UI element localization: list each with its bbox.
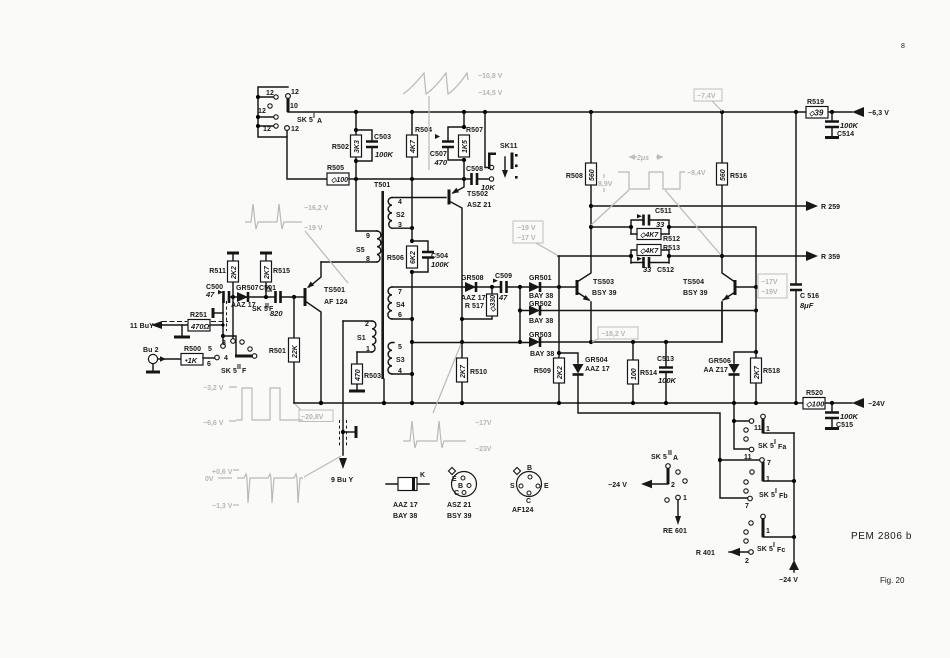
wire GR504 to SK5IFb xyxy=(578,403,760,498)
svg-text:S: S xyxy=(510,483,515,490)
svg-text:7: 7 xyxy=(767,460,771,467)
svg-text:R509: R509 xyxy=(534,368,551,375)
svg-text:33: 33 xyxy=(656,220,665,229)
svg-text:SK 5: SK 5 xyxy=(757,546,773,553)
legend diode package AAZ17 BAY38 xyxy=(386,472,429,520)
svg-text:47: 47 xyxy=(498,293,508,302)
svg-text:C512: C512 xyxy=(657,267,674,274)
resistor R517 xyxy=(462,287,498,319)
svg-text:12: 12 xyxy=(263,126,271,133)
svg-text:1: 1 xyxy=(366,346,370,353)
resistor R509 xyxy=(534,353,565,405)
svg-text:2: 2 xyxy=(365,321,369,328)
svg-text:7: 7 xyxy=(398,289,402,296)
svg-text:ASZ 21: ASZ 21 xyxy=(447,502,471,509)
svg-text:◇330: ◇330 xyxy=(490,295,497,312)
svg-text:R519: R519 xyxy=(807,99,824,106)
wire GR501 row to TS503 xyxy=(465,285,576,289)
winding S5 xyxy=(321,231,381,263)
svg-text:11: 11 xyxy=(744,454,752,461)
winding S4 xyxy=(388,287,465,319)
svg-text:12: 12 xyxy=(291,126,299,133)
svg-text:−17V: −17V xyxy=(475,420,492,427)
legend transistor AF124 xyxy=(510,465,549,514)
arrow 9BuY xyxy=(331,458,353,484)
resistor R508 xyxy=(566,110,597,229)
diode GR502 xyxy=(518,287,756,325)
svg-text:2μs: 2μs xyxy=(636,155,649,162)
svg-text:100K: 100K xyxy=(375,150,394,159)
switch SK11 xyxy=(483,110,518,179)
resistor R251 xyxy=(188,312,225,331)
svg-text:R503: R503 xyxy=(364,373,381,380)
svg-text:R520: R520 xyxy=(806,390,823,397)
svg-text:1: 1 xyxy=(766,528,770,535)
socket Bu2 xyxy=(143,347,181,364)
diode GR504 xyxy=(559,353,610,403)
svg-text:◇39: ◇39 xyxy=(809,109,824,118)
wire R259 row xyxy=(591,205,806,207)
svg-text:−17 V: −17 V xyxy=(517,235,536,242)
svg-text:R502: R502 xyxy=(332,144,349,151)
text page 8 xyxy=(901,43,905,50)
svg-text:R500: R500 xyxy=(184,346,201,353)
svg-text:−19 V: −19 V xyxy=(517,225,536,232)
svg-text:SK 5: SK 5 xyxy=(758,443,774,450)
shield tap C500 line xyxy=(213,308,223,318)
svg-text:BSY 39: BSY 39 xyxy=(592,290,617,297)
svg-text:C: C xyxy=(526,498,531,505)
svg-text:−24 V: −24 V xyxy=(779,577,798,584)
svg-text:GR504: GR504 xyxy=(585,357,608,364)
svg-text:GR507: GR507 xyxy=(236,285,259,292)
capacitor C515 xyxy=(825,403,859,429)
svg-text:E: E xyxy=(544,483,549,490)
wire node base-R509 link xyxy=(557,256,561,355)
resistor R511 xyxy=(209,253,239,297)
wire top supply bus xyxy=(288,111,852,113)
svg-text:1: 1 xyxy=(766,426,770,433)
svg-text:R512: R512 xyxy=(663,236,680,243)
capacitor C507 xyxy=(430,110,466,167)
svg-text:−24 V: −24 V xyxy=(608,482,627,489)
resistor R510 xyxy=(457,317,488,405)
wire SK5IA contact12 to R505 row xyxy=(287,131,327,179)
ground C515 xyxy=(825,427,839,430)
svg-text:GR503: GR503 xyxy=(529,332,552,339)
resistor R501 xyxy=(269,295,300,403)
svg-text:AAZ 17: AAZ 17 xyxy=(461,295,486,302)
svg-text:2K2: 2K2 xyxy=(557,366,564,380)
svg-text:3: 3 xyxy=(222,340,226,347)
winding S3 xyxy=(388,343,412,376)
svg-text:100K: 100K xyxy=(840,412,859,421)
svg-text:+0,6 V: +0,6 V xyxy=(212,469,233,476)
svg-text:100: 100 xyxy=(631,368,638,380)
diode GR507 xyxy=(231,285,274,313)
voltage box -7,4V xyxy=(694,89,722,111)
ground C514 xyxy=(825,136,839,139)
waveform spikes -17V xyxy=(403,344,492,453)
svg-text:3K3: 3K3 xyxy=(354,140,361,153)
svg-text:S2: S2 xyxy=(396,212,405,219)
transistor TS504 xyxy=(683,256,758,342)
svg-text:C: C xyxy=(454,490,459,497)
svg-text:22K: 22K xyxy=(292,344,299,359)
svg-text:C511: C511 xyxy=(655,208,672,215)
svg-text:GR508: GR508 xyxy=(461,275,484,282)
svg-text:Fa: Fa xyxy=(778,444,786,451)
svg-text:6: 6 xyxy=(398,312,402,319)
switch SK5-II-F xyxy=(207,297,257,375)
svg-text:I: I xyxy=(773,542,775,549)
transistor TS502 xyxy=(449,179,491,319)
svg-text:−10,8 V: −10,8 V xyxy=(478,73,503,80)
transistor TS501 xyxy=(294,262,348,405)
svg-text:A: A xyxy=(673,455,678,462)
svg-text:S5: S5 xyxy=(356,247,365,254)
svg-text:−6,3 V: −6,3 V xyxy=(868,110,889,117)
svg-text:2K7: 2K7 xyxy=(460,364,467,379)
svg-text:12: 12 xyxy=(291,89,299,96)
svg-text:R516: R516 xyxy=(730,173,747,180)
svg-text:1: 1 xyxy=(683,495,687,502)
svg-text:TS503: TS503 xyxy=(593,279,614,286)
resistor R519 xyxy=(806,99,834,118)
resistor R516 xyxy=(717,110,748,258)
resistor R502 xyxy=(332,110,362,179)
svg-text:R 401: R 401 xyxy=(696,550,715,557)
svg-text:−24V: −24V xyxy=(868,401,885,408)
svg-text:R501: R501 xyxy=(269,348,286,355)
svg-text:0V: 0V xyxy=(205,476,214,483)
arrow -6,3V xyxy=(852,107,889,117)
svg-text:4: 4 xyxy=(224,355,228,362)
svg-text:TS501: TS501 xyxy=(324,287,345,294)
svg-text:R251: R251 xyxy=(190,312,207,319)
voltage box -17V -19V xyxy=(758,274,787,298)
svg-text:C513: C513 xyxy=(657,356,674,363)
svg-text:−23V: −23V xyxy=(475,446,492,453)
svg-text:470Ω: 470Ω xyxy=(190,322,210,331)
svg-text:SK 5: SK 5 xyxy=(221,368,237,375)
svg-text:C503: C503 xyxy=(374,134,391,141)
voltage box -18,2V xyxy=(592,327,638,342)
wire bottom -24V bus xyxy=(294,402,852,404)
svg-text:−8,4V: −8,4V xyxy=(687,170,706,177)
legend transistor ASZ21 BSY39 xyxy=(447,467,477,520)
diode GR503 xyxy=(518,311,554,359)
svg-text:R508: R508 xyxy=(566,173,583,180)
wire R359 row xyxy=(558,255,806,257)
svg-text:B: B xyxy=(458,483,463,490)
svg-text:−19V: −19V xyxy=(761,289,778,296)
wire emitter row 342 xyxy=(412,302,722,344)
svg-text:R 517: R 517 xyxy=(465,303,484,310)
svg-text:Fb: Fb xyxy=(779,493,788,500)
wire node x756 xyxy=(754,287,758,354)
svg-text:10: 10 xyxy=(290,103,298,110)
svg-text:I: I xyxy=(774,439,776,446)
wire 9BuY output xyxy=(340,321,357,455)
arrow 11BuY xyxy=(130,321,228,330)
switch SK5-I-Fb xyxy=(744,458,796,510)
svg-text:BAY 38: BAY 38 xyxy=(529,293,553,300)
svg-text:1K5: 1K5 xyxy=(462,140,469,153)
voltage box -20,8V xyxy=(295,404,333,422)
svg-text:Bu 2: Bu 2 xyxy=(143,347,159,354)
text PEM 2806 b xyxy=(851,531,912,542)
svg-text:AAZ 17: AAZ 17 xyxy=(393,502,418,509)
svg-text:R510: R510 xyxy=(470,369,487,376)
svg-text:8: 8 xyxy=(901,43,905,50)
svg-text:I: I xyxy=(775,488,777,495)
svg-text:2K7: 2K7 xyxy=(264,265,271,280)
svg-text:−6,6 V: −6,6 V xyxy=(203,420,224,427)
svg-text:SK 5: SK 5 xyxy=(297,117,313,124)
svg-text:R507: R507 xyxy=(466,127,483,134)
waveform sawtooth -10,8V xyxy=(403,73,503,170)
switch SK5-I-A xyxy=(256,87,322,137)
svg-text:◇100: ◇100 xyxy=(806,400,825,409)
svg-text:•1K: •1K xyxy=(185,356,198,365)
transformer T501 core xyxy=(374,182,390,405)
svg-text:11: 11 xyxy=(754,425,762,432)
arrow -24V right xyxy=(852,398,885,408)
resistor R518 xyxy=(751,352,781,405)
svg-text:F: F xyxy=(242,368,247,375)
svg-text:R505: R505 xyxy=(327,165,344,172)
svg-text:5: 5 xyxy=(398,344,402,351)
svg-text:B: B xyxy=(527,465,532,472)
svg-text:BAY 38: BAY 38 xyxy=(530,351,554,358)
svg-text:AF 124: AF 124 xyxy=(324,299,348,306)
svg-text:R 259: R 259 xyxy=(821,204,840,211)
resistor R507 xyxy=(459,127,484,179)
junction dots bottom bus xyxy=(319,401,464,405)
svg-text:C 516: C 516 xyxy=(800,293,819,300)
waveform spikes 0V xyxy=(205,456,341,510)
capacitor C508 xyxy=(464,166,495,192)
svg-text:33: 33 xyxy=(643,265,652,274)
svg-text:AAZ 17: AAZ 17 xyxy=(585,366,610,373)
svg-text:560: 560 xyxy=(589,169,596,181)
svg-text:S1: S1 xyxy=(357,335,366,342)
svg-text:RE 601: RE 601 xyxy=(663,528,687,535)
svg-text:GR506: GR506 xyxy=(708,358,731,365)
svg-text:4K7: 4K7 xyxy=(410,139,417,154)
svg-text:100K: 100K xyxy=(431,260,450,269)
arrow RE601 xyxy=(663,500,687,535)
svg-text:K: K xyxy=(420,472,425,479)
capacitor C509 xyxy=(493,273,512,302)
svg-text:9 Bu Y: 9 Bu Y xyxy=(331,477,353,484)
svg-text:Fc: Fc xyxy=(777,547,785,554)
svg-text:8μF: 8μF xyxy=(800,301,814,310)
switch SK5-I-Fc xyxy=(744,514,796,565)
svg-text:PEM 2806 b: PEM 2806 b xyxy=(851,531,912,542)
svg-text:C508: C508 xyxy=(466,166,483,173)
svg-text:2: 2 xyxy=(671,482,675,489)
transistor TS503 xyxy=(577,227,617,342)
svg-text:R514: R514 xyxy=(640,370,657,377)
svg-text:BAY 38: BAY 38 xyxy=(393,513,417,520)
svg-text:◇100: ◇100 xyxy=(331,177,348,184)
resistor R514 xyxy=(628,342,658,405)
svg-text:SK 5: SK 5 xyxy=(651,454,667,461)
svg-text:C504: C504 xyxy=(431,253,448,260)
svg-text:◇4K7: ◇4K7 xyxy=(640,232,659,239)
svg-text:C514: C514 xyxy=(837,131,854,138)
resistor R504 xyxy=(407,110,433,179)
arrow R401 xyxy=(696,548,748,557)
svg-text:TS502: TS502 xyxy=(467,191,488,198)
capacitor C503 xyxy=(356,130,394,161)
svg-text:3: 3 xyxy=(398,222,402,229)
svg-text:9: 9 xyxy=(366,233,370,240)
resistor R512 xyxy=(631,229,680,244)
capacitor C511 xyxy=(591,208,756,287)
svg-text:AF124: AF124 xyxy=(512,507,534,514)
capacitor C514 xyxy=(825,112,859,138)
switch SK5-I-Fa xyxy=(732,403,794,461)
svg-text:−14,5 V: −14,5 V xyxy=(478,90,503,97)
wire -24V feed verticals xyxy=(793,433,795,560)
svg-text:SK 5: SK 5 xyxy=(759,492,775,499)
svg-text:47: 47 xyxy=(205,290,215,299)
diode GR506 xyxy=(704,352,756,405)
svg-text:8: 8 xyxy=(366,256,370,263)
svg-text:Fig. 20: Fig. 20 xyxy=(880,576,905,585)
svg-text:I: I xyxy=(313,113,315,120)
svg-text:BSY 39: BSY 39 xyxy=(683,290,708,297)
switch SK5-II-A xyxy=(608,450,687,502)
waveform spikes -16,2V xyxy=(245,204,348,283)
svg-text:470: 470 xyxy=(355,369,362,382)
ground Bu2 xyxy=(146,364,160,372)
svg-text:−1,3 V: −1,3 V xyxy=(212,503,233,510)
svg-text:R518: R518 xyxy=(763,368,780,375)
svg-text:II: II xyxy=(668,450,672,457)
svg-text:12: 12 xyxy=(266,90,274,97)
svg-text:12: 12 xyxy=(258,108,266,115)
svg-text:560: 560 xyxy=(720,169,727,181)
svg-text:2K2: 2K2 xyxy=(231,266,238,280)
arrow R259 xyxy=(806,201,840,211)
svg-text:100K: 100K xyxy=(658,376,677,385)
capacitor C513 xyxy=(657,342,677,405)
svg-text:C509: C509 xyxy=(495,273,512,280)
wire x412 link xyxy=(410,179,414,405)
svg-text:SK11: SK11 xyxy=(500,143,518,150)
svg-text:TS504: TS504 xyxy=(683,279,704,286)
resistor R513 xyxy=(629,245,680,264)
svg-text:2K7: 2K7 xyxy=(754,365,761,380)
ground R503 xyxy=(349,390,365,393)
svg-text:T501: T501 xyxy=(374,182,390,189)
resistor R520 xyxy=(803,390,834,409)
svg-text:100K: 100K xyxy=(840,121,859,130)
svg-text:8,9V: 8,9V xyxy=(598,181,613,188)
svg-text:5: 5 xyxy=(208,346,212,353)
resistor R506 xyxy=(387,246,418,268)
wire S5 to R502 node xyxy=(355,179,357,231)
svg-text:R511: R511 xyxy=(209,268,226,275)
arrow R359 xyxy=(806,251,840,261)
svg-text:◇4K7: ◇4K7 xyxy=(640,248,659,255)
resistor R515 xyxy=(260,253,290,297)
svg-text:11 BuY: 11 BuY xyxy=(130,323,154,330)
wire base row TS501 xyxy=(229,295,294,299)
svg-text:470: 470 xyxy=(433,158,447,167)
svg-text:C507: C507 xyxy=(430,151,447,158)
svg-text:S4: S4 xyxy=(396,302,405,309)
svg-text:ASZ 21: ASZ 21 xyxy=(467,202,491,209)
capacitor C501 xyxy=(259,285,283,318)
svg-text:S3: S3 xyxy=(396,357,405,364)
capacitor C516 xyxy=(790,110,819,405)
svg-text:BSY 39: BSY 39 xyxy=(447,513,472,520)
svg-text:R506: R506 xyxy=(387,255,404,262)
resistor R500 xyxy=(181,346,214,365)
svg-text:E: E xyxy=(452,476,457,483)
svg-text:820: 820 xyxy=(270,309,283,318)
svg-text:−7,4V: −7,4V xyxy=(697,93,716,100)
svg-text:−17V: −17V xyxy=(761,279,778,286)
svg-text:−18,2 V: −18,2 V xyxy=(601,331,626,338)
resistor R505 xyxy=(327,165,356,185)
resistor R503 xyxy=(352,352,382,390)
svg-text:−3,2 V: −3,2 V xyxy=(203,385,224,392)
svg-text:4: 4 xyxy=(398,199,402,206)
node wiper SK5IIF feed xyxy=(208,297,227,353)
svg-text:GR502: GR502 xyxy=(529,301,552,308)
svg-text:4: 4 xyxy=(398,368,402,375)
winding S2 xyxy=(388,198,446,231)
svg-text:BAY 38: BAY 38 xyxy=(529,318,553,325)
svg-text:R513: R513 xyxy=(663,245,680,252)
svg-text:−19 V: −19 V xyxy=(304,225,323,232)
voltage box -19V -17V xyxy=(513,221,557,255)
waveform squarewave 2us xyxy=(591,154,720,254)
svg-text:II: II xyxy=(237,364,241,371)
svg-text:6: 6 xyxy=(207,361,211,368)
svg-text:−16,2 V: −16,2 V xyxy=(304,205,329,212)
svg-text:2: 2 xyxy=(745,558,749,565)
svg-text:7: 7 xyxy=(745,503,749,510)
svg-text:1: 1 xyxy=(766,476,770,483)
svg-text:GR501: GR501 xyxy=(529,275,552,282)
winding S1 xyxy=(343,321,376,353)
capacitor C504 xyxy=(412,241,450,272)
svg-text:R515: R515 xyxy=(273,268,290,275)
wire row 179 xyxy=(354,177,466,181)
diode GR508 xyxy=(461,275,486,302)
arrow -24V bottom xyxy=(779,560,799,584)
capacitor C512 xyxy=(631,257,674,275)
svg-text:−20,8V: −20,8V xyxy=(301,414,324,421)
svg-text:AA Z17: AA Z17 xyxy=(704,367,728,374)
diode GR501 xyxy=(529,275,553,300)
waveform pulses -3,2V xyxy=(203,385,303,427)
svg-text:R 359: R 359 xyxy=(821,254,840,261)
svg-text:6K2: 6K2 xyxy=(410,251,417,264)
text Fig 20 xyxy=(880,576,905,585)
ground at 11BuY line xyxy=(174,325,190,337)
capacitor C500 xyxy=(205,284,229,303)
svg-text:A: A xyxy=(317,118,322,125)
